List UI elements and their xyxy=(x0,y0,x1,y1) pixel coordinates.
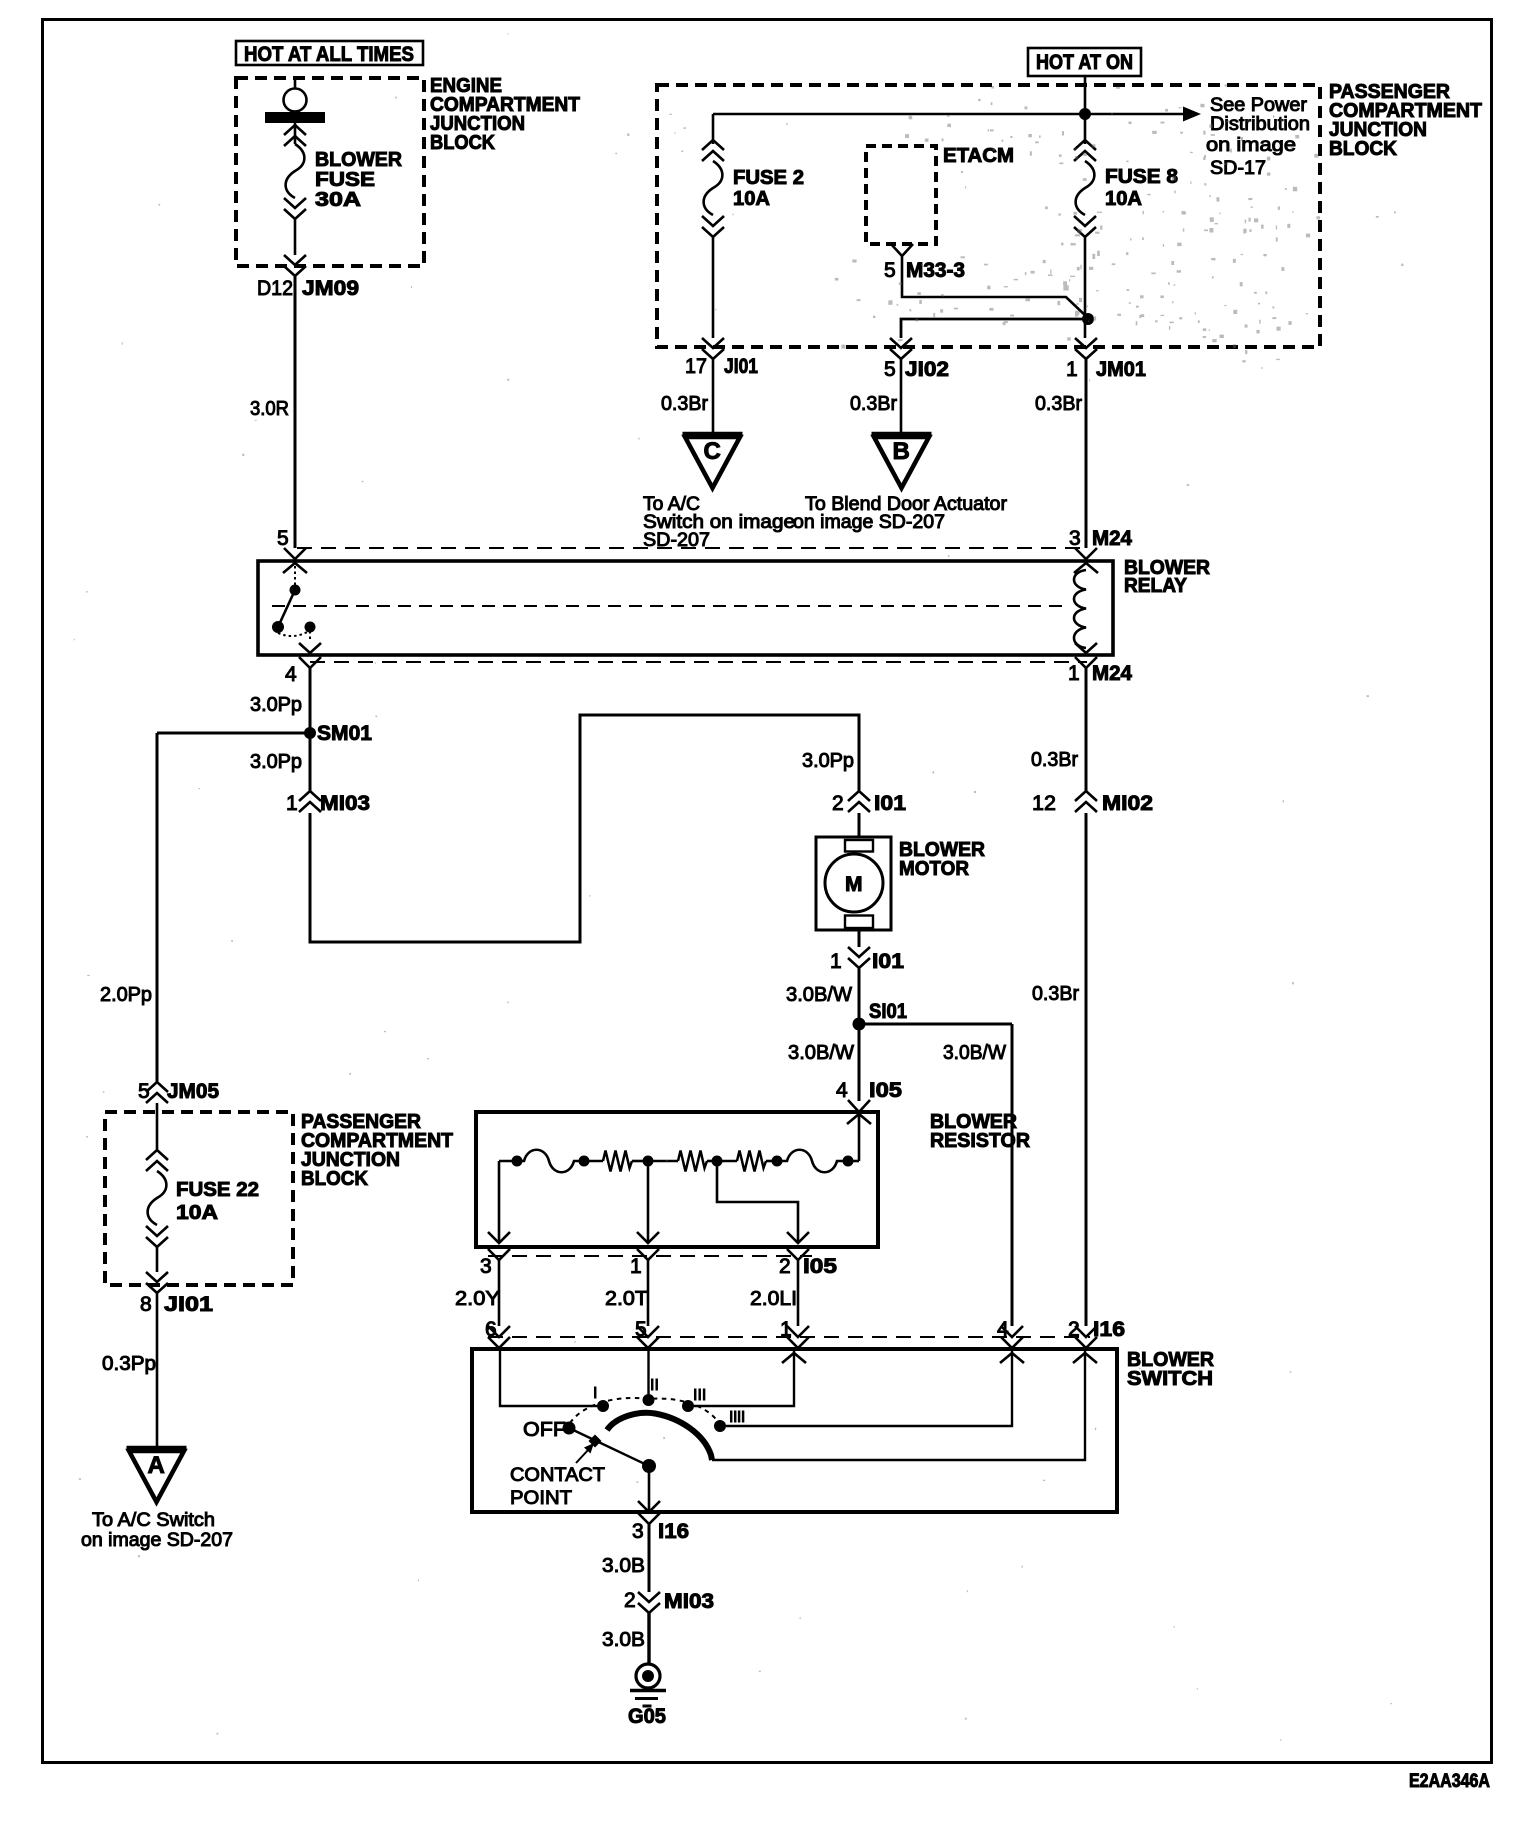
relay coil arrowhead bottom xyxy=(1075,643,1097,653)
svg-text:2.0Y: 2.0Y xyxy=(455,1288,500,1310)
svg-text:0.3Br: 0.3Br xyxy=(1032,983,1079,1005)
chain dot c xyxy=(643,1156,654,1167)
connector 12 MI02 chevrons xyxy=(1075,791,1097,812)
svg-text:E2AA346A: E2AA346A xyxy=(1409,1771,1490,1792)
wire to block edge xyxy=(156,1247,159,1272)
svg-text:3.0B: 3.0B xyxy=(602,1629,645,1651)
resistor element R3 zigzag xyxy=(737,1151,766,1172)
svg-text:3: 3 xyxy=(1069,527,1081,550)
switch pin 2 lead to wiper strip xyxy=(1073,1353,1097,1363)
wire 2.0Pp down left side xyxy=(156,733,159,1082)
wire xyxy=(294,123,297,144)
relay switch dotted lead down xyxy=(309,631,311,642)
svg-text:JM01: JM01 xyxy=(1096,358,1146,381)
relay BLOWER RELAY box xyxy=(258,561,1113,655)
fuse BLOWER FUSE 30A symbol xyxy=(286,144,305,198)
wire routing MI03 to blower motor xyxy=(310,715,859,942)
svg-text:1: 1 xyxy=(286,792,298,815)
svg-text:MI02: MI02 xyxy=(1102,792,1153,815)
svg-text:5: 5 xyxy=(277,527,289,550)
relay switch contact dot left xyxy=(272,621,284,633)
connector 5 JM05 chevrons xyxy=(146,1082,168,1103)
svg-text:M33-3: M33-3 xyxy=(906,259,965,282)
connector chevrons above fuse 8 xyxy=(1074,140,1096,161)
svg-text:10A: 10A xyxy=(733,188,770,210)
svg-text:0.3Br: 0.3Br xyxy=(661,393,708,415)
contact dot III xyxy=(682,1400,694,1412)
svg-text:2: 2 xyxy=(1068,1318,1080,1341)
connector 2 I01 chevrons xyxy=(848,791,870,812)
svg-text:MI03: MI03 xyxy=(664,1590,714,1613)
svg-text:IIII: IIII xyxy=(729,1409,745,1426)
wire xyxy=(707,1160,717,1163)
svg-text:A: A xyxy=(148,1452,165,1479)
ETACM pin vee xyxy=(891,244,913,256)
fuse FUSE 2 10A symbol xyxy=(704,161,723,215)
svg-text:I16: I16 xyxy=(658,1520,689,1543)
contact dot OFF xyxy=(563,1422,576,1435)
wiper thick arc xyxy=(607,1413,712,1460)
thermal fuse hump 1 xyxy=(517,1150,584,1173)
I16 pin 6 chevrons xyxy=(488,1326,510,1337)
svg-text:30A: 30A xyxy=(315,189,361,211)
switch pivot dot xyxy=(642,1459,656,1473)
svg-text:8: 8 xyxy=(140,1293,152,1316)
I16 pin 2 chevrons xyxy=(1075,1326,1097,1337)
svg-text:5: 5 xyxy=(884,259,896,282)
wire 0.3Br MI02 down to switch xyxy=(1085,813,1088,1326)
svg-text:on image: on image xyxy=(1206,135,1296,156)
fuse 8 branch wire xyxy=(1084,114,1087,144)
svg-text:M: M xyxy=(845,873,863,896)
wire xyxy=(584,1160,603,1163)
svg-text:12: 12 xyxy=(1032,792,1056,815)
power label HOT AT ON xyxy=(1028,48,1141,76)
svg-text:MOTOR: MOTOR xyxy=(899,858,970,880)
wire 0.3Br relay pin 1 down xyxy=(1085,668,1088,791)
svg-text:FUSE: FUSE xyxy=(315,169,375,191)
svg-text:M24: M24 xyxy=(1092,662,1132,685)
junction block box: PASSENGER COMPARTMENT (dashed) xyxy=(657,85,1320,347)
connector 17 JI01 chevrons xyxy=(702,338,724,359)
svg-text:3.0Pp: 3.0Pp xyxy=(250,751,302,773)
resistor entry arrowhead xyxy=(847,1114,871,1124)
wire 3.0Pp to MI03 xyxy=(309,733,312,791)
ground symbol G05 xyxy=(636,1664,660,1688)
arrow to power distribution xyxy=(1183,107,1201,122)
wire 3.0B/W below motor xyxy=(858,930,861,947)
fuse 2 branch wire xyxy=(712,114,715,144)
svg-text:3.0Pp: 3.0Pp xyxy=(802,750,854,772)
svg-text:MI03: MI03 xyxy=(320,792,370,815)
svg-text:BLOCK: BLOCK xyxy=(430,132,496,154)
wiper arm from OFF to pivot xyxy=(569,1428,649,1466)
I16 pin 4 chevrons xyxy=(1001,1326,1023,1337)
wire from node to JI02 xyxy=(901,319,1088,338)
motor circle with M xyxy=(825,854,883,912)
svg-text:0.3Pp: 0.3Pp xyxy=(102,1353,156,1375)
svg-text:5: 5 xyxy=(884,358,896,381)
svg-text:on image SD-207: on image SD-207 xyxy=(81,1530,233,1551)
blower motor M1 body box xyxy=(816,837,891,930)
off-page connector C triangle xyxy=(683,432,743,437)
connector chevrons below fuse 2 xyxy=(702,216,724,237)
wire 2.0T xyxy=(647,1260,650,1326)
motor bottom brush tab xyxy=(845,916,873,929)
connector dashed line M24 top xyxy=(297,547,1086,549)
relay pin 1 vee xyxy=(1075,657,1097,668)
connector 8 JI01 chevrons xyxy=(146,1272,168,1293)
circuit breaker circle xyxy=(284,89,307,112)
svg-text:HOT AT ALL TIMES: HOT AT ALL TIMES xyxy=(244,43,414,66)
chain dot b xyxy=(579,1156,590,1167)
wire 0.3Br to C xyxy=(712,359,715,432)
I05 pin 2 vee xyxy=(787,1249,809,1260)
fuse FUSE 8 10A symbol xyxy=(1076,161,1095,215)
svg-text:SI01: SI01 xyxy=(869,1000,907,1023)
wire into fuse 22 xyxy=(156,1103,159,1150)
svg-text:HOT AT ON: HOT AT ON xyxy=(1036,51,1133,74)
contact dot II xyxy=(643,1394,655,1406)
wire 2.0LI xyxy=(797,1260,800,1326)
svg-text:4: 4 xyxy=(836,1079,848,1102)
svg-text:10A: 10A xyxy=(1105,188,1142,210)
thermal fuse hump 2 xyxy=(777,1150,848,1173)
svg-text:RELAY: RELAY xyxy=(1124,575,1188,597)
svg-text:5: 5 xyxy=(138,1080,150,1103)
svg-text:To A/C Switch: To A/C Switch xyxy=(92,1510,215,1531)
connector 1 MI03 chevrons xyxy=(299,791,321,812)
wire 3.0B lower xyxy=(647,1613,650,1664)
relay coil arrowhead top xyxy=(1074,563,1098,573)
svg-text:on image SD-207: on image SD-207 xyxy=(793,512,945,533)
switch pin 5 lead to contact II xyxy=(647,1349,649,1395)
switch pin 6 lead to contact I xyxy=(500,1349,597,1406)
wire fuse 8 to block edge xyxy=(1084,237,1087,338)
wire 0.3Pp to A xyxy=(156,1293,159,1447)
svg-text:3.0B/W: 3.0B/W xyxy=(943,1042,1006,1064)
svg-text:C: C xyxy=(704,438,721,465)
svg-text:1: 1 xyxy=(1068,662,1080,685)
wire from dashed edge to breaker xyxy=(294,79,297,89)
svg-text:5: 5 xyxy=(635,1318,647,1341)
wire 3.0B upper xyxy=(648,1524,651,1592)
wire xyxy=(766,1160,777,1163)
I05 pin 1 vee xyxy=(637,1249,659,1260)
resistor drop pin 3 xyxy=(498,1161,501,1243)
wire from ETACM to fuse 8 node xyxy=(902,256,1088,318)
resistor element R1 zigzag xyxy=(603,1151,632,1172)
junction SM01 dot xyxy=(304,727,316,739)
svg-text:17: 17 xyxy=(685,355,707,378)
relay switch pivot dot xyxy=(290,585,301,596)
switch pin 1 lead to contact III xyxy=(782,1353,806,1363)
svg-text:II: II xyxy=(650,1377,659,1394)
switch pin 3 vee xyxy=(638,1513,660,1524)
wire from HOT AT ON down xyxy=(1084,76,1087,114)
svg-text:Distribution: Distribution xyxy=(1210,114,1310,135)
svg-text:3.0R: 3.0R xyxy=(250,398,289,420)
wire SM01 branch to left xyxy=(157,732,310,735)
circuit breaker bar (filled) xyxy=(265,112,325,123)
relay switch contact dot right xyxy=(305,622,316,633)
svg-text:See Power: See Power xyxy=(1210,95,1308,116)
relay switch dotted throw xyxy=(278,631,309,636)
svg-text:I05: I05 xyxy=(803,1255,837,1278)
svg-text:JI01: JI01 xyxy=(724,355,758,378)
svg-text:1: 1 xyxy=(830,950,842,973)
chain dot e xyxy=(772,1156,783,1167)
svg-text:2.0Pp: 2.0Pp xyxy=(100,984,152,1006)
chain dot a xyxy=(512,1156,523,1167)
connector D12 / JM09 chevrons xyxy=(284,255,306,276)
wire to block edge xyxy=(294,219,297,255)
wire 2.0Y xyxy=(498,1260,501,1326)
relay pin 5 vee xyxy=(284,548,306,559)
svg-text:III: III xyxy=(693,1387,706,1404)
svg-text:SD-17: SD-17 xyxy=(1210,158,1266,179)
junction block box: PASSENGER COMPARTMENT lower-left (dashed) xyxy=(105,1112,293,1285)
wire 0.3Br to relay pin 3 xyxy=(1085,359,1088,548)
relay switch contact: arrowhead xyxy=(283,563,307,573)
svg-text:JM05: JM05 xyxy=(167,1080,219,1103)
chain dot d xyxy=(712,1156,723,1167)
svg-text:RESISTOR: RESISTOR xyxy=(930,1130,1031,1152)
I05 pin 3 vee xyxy=(488,1249,510,1260)
svg-text:2.0LI: 2.0LI xyxy=(750,1288,797,1310)
contact dot I xyxy=(597,1400,609,1412)
svg-text:3.0B: 3.0B xyxy=(602,1555,645,1577)
svg-text:SWITCH: SWITCH xyxy=(1127,1368,1213,1390)
relay coil winding xyxy=(1074,570,1086,648)
motor top brush tab xyxy=(845,840,873,852)
connector 4 I05 vee xyxy=(848,1100,870,1112)
svg-text:1: 1 xyxy=(630,1255,642,1278)
contact point diamond xyxy=(589,1435,602,1448)
wire to entry xyxy=(848,1160,859,1163)
svg-text:1: 1 xyxy=(780,1318,792,1341)
svg-text:JI01: JI01 xyxy=(164,1293,213,1316)
svg-text:2.0T: 2.0T xyxy=(605,1288,648,1310)
svg-text:BLOCK: BLOCK xyxy=(301,1168,369,1190)
svg-text:2: 2 xyxy=(832,792,844,815)
wire 3.0B/W branch down to switch pin 4 xyxy=(1011,1024,1014,1326)
svg-text:JI02: JI02 xyxy=(905,358,949,381)
chain dot f xyxy=(843,1156,854,1167)
wire SI01 branch right xyxy=(859,1023,1012,1026)
contact point leader arrow xyxy=(576,1449,589,1463)
wire xyxy=(632,1160,648,1163)
connector 5 JI02 chevrons xyxy=(890,338,912,359)
svg-text:CONTACT: CONTACT xyxy=(510,1465,605,1486)
relay switch arm xyxy=(278,590,295,627)
connector dashed line M24 bottom xyxy=(310,661,1087,663)
svg-text:OFF: OFF xyxy=(523,1419,566,1441)
svg-text:4: 4 xyxy=(285,663,297,686)
connector dashed line I16 xyxy=(488,1336,1090,1338)
wire into motor xyxy=(858,813,861,838)
resistor chain wire left end xyxy=(499,1160,517,1163)
svg-text:I16: I16 xyxy=(1093,1318,1125,1341)
svg-text:JM09: JM09 xyxy=(302,277,359,300)
junction dot SD node xyxy=(1082,313,1094,325)
svg-text:M24: M24 xyxy=(1092,527,1132,550)
connector chevrons above fuse xyxy=(284,125,306,146)
svg-text:2: 2 xyxy=(624,1589,636,1612)
ETACM module box (dashed) xyxy=(866,146,936,244)
svg-text:3.0B/W: 3.0B/W xyxy=(786,984,852,1006)
I16 pin 1 chevrons xyxy=(787,1326,809,1337)
svg-text:G05: G05 xyxy=(628,1705,666,1728)
relay pin 4 vee xyxy=(299,657,321,668)
wire 3.0B/W to resistor xyxy=(858,1024,861,1101)
connector chevrons above fuse 22 xyxy=(146,1150,168,1171)
svg-text:D12: D12 xyxy=(257,277,293,300)
svg-text:B: B xyxy=(893,438,910,465)
connector 1 JM01 chevrons xyxy=(1075,338,1097,359)
wire xyxy=(717,1160,737,1163)
wire 3.0R xyxy=(294,276,297,548)
relay internal dashed divider xyxy=(272,605,1066,607)
relay pin 3 vee xyxy=(1075,548,1097,559)
svg-text:0.3Br: 0.3Br xyxy=(1035,393,1082,415)
wire 0.3Br to B xyxy=(900,359,903,432)
svg-text:SD-207: SD-207 xyxy=(643,530,710,551)
bus wire across junction block xyxy=(713,113,1183,115)
svg-text:FUSE 22: FUSE 22 xyxy=(176,1179,259,1201)
switch pin 4 lead to contact IIII xyxy=(1000,1353,1024,1363)
relay switch contact: dotted lead xyxy=(294,566,296,586)
svg-text:1: 1 xyxy=(1066,358,1078,381)
svg-text:0.3Br: 0.3Br xyxy=(850,393,897,415)
wire 3.0Pp from relay pin 4 xyxy=(309,668,312,733)
svg-text:10A: 10A xyxy=(176,1202,218,1224)
connector chevrons below fuse 22 xyxy=(146,1226,168,1247)
connector dashed line I05 xyxy=(488,1255,812,1257)
off-page connector A triangle xyxy=(127,1446,187,1451)
resistor drop pin 2 (jogged) xyxy=(717,1161,798,1243)
wire xyxy=(648,1160,678,1163)
svg-text:ETACM: ETACM xyxy=(943,145,1014,167)
svg-text:2: 2 xyxy=(779,1255,791,1278)
svg-text:BLOCK: BLOCK xyxy=(1329,138,1398,160)
rotary dashed arc through contacts xyxy=(566,1398,722,1431)
contact dot IIII xyxy=(714,1420,726,1432)
connector 1 I01 chevrons below motor xyxy=(848,947,870,968)
I16 pin 5 chevrons xyxy=(637,1326,659,1337)
svg-text:I01: I01 xyxy=(874,792,906,815)
resistor drop pin 1 xyxy=(647,1161,650,1243)
switch output lead xyxy=(648,1466,651,1512)
svg-text:FUSE 8: FUSE 8 xyxy=(1105,166,1178,188)
wire to block edge xyxy=(712,237,715,338)
svg-text:3: 3 xyxy=(632,1520,644,1543)
svg-text:3.0B/W: 3.0B/W xyxy=(788,1042,854,1064)
connector chevrons below fuse xyxy=(284,198,306,219)
junction block box: ENGINE COMPARTMENT (dashed) xyxy=(236,78,424,266)
svg-text:I01: I01 xyxy=(872,950,904,973)
power label HOT AT ALL TIMES xyxy=(236,41,423,65)
svg-text:4: 4 xyxy=(997,1318,1009,1341)
svg-text:0.3Br: 0.3Br xyxy=(1031,749,1078,771)
svg-text:I05: I05 xyxy=(869,1079,902,1102)
fuse FUSE 22 10A symbol xyxy=(148,1171,167,1225)
svg-text:POINT: POINT xyxy=(510,1488,572,1509)
blower switch box xyxy=(472,1349,1117,1512)
svg-text:BLOWER: BLOWER xyxy=(315,149,403,171)
svg-text:6: 6 xyxy=(485,1318,497,1341)
resistor element R2 zigzag xyxy=(678,1151,707,1172)
junction dot at fuse 8 top xyxy=(1079,108,1091,120)
svg-text:FUSE 2: FUSE 2 xyxy=(733,167,804,189)
connector chevrons above fuse 2 xyxy=(702,140,724,161)
junction SI01 dot xyxy=(853,1018,866,1031)
connector 2 MI03 chevrons xyxy=(638,1592,660,1613)
svg-text:3: 3 xyxy=(480,1255,492,1278)
resistor entry wire xyxy=(858,1114,861,1161)
connector chevrons below fuse 8 xyxy=(1074,216,1096,237)
blower resistor box xyxy=(476,1112,878,1247)
svg-text:SM01: SM01 xyxy=(317,722,372,745)
svg-text:3.0Pp: 3.0Pp xyxy=(250,694,302,716)
svg-text:I: I xyxy=(593,1385,597,1402)
off-page connector B triangle xyxy=(872,432,932,437)
relay switch exit arrowhead xyxy=(299,643,321,653)
